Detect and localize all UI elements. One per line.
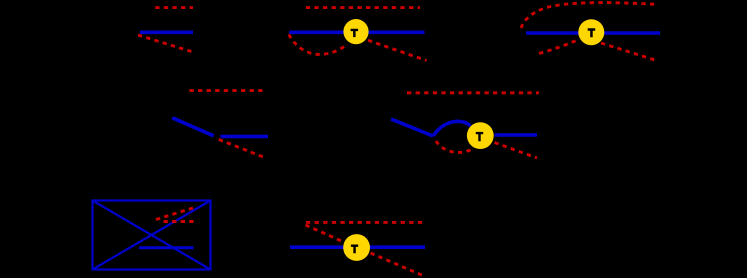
panel 2 red dashed dip curve — [289, 35, 348, 55]
panel 3 blue gene line — [526, 31, 660, 35]
panel 5 blue diagonal segment — [391, 119, 433, 136]
panel 3 transposon circle T — [578, 19, 604, 45]
panel 6 blue gene line inside box — [139, 246, 194, 249]
panel 3 red dashed upper arc — [521, 3, 655, 28]
panel 3 red dashed lower-right diagonal — [601, 43, 657, 61]
panel 5 red dashed dip under circle — [436, 141, 474, 153]
panel 4 blue diagonal segment — [172, 118, 213, 136]
panel 4 red dashed diagonal — [219, 140, 265, 158]
panel 4 blue horizontal segment — [221, 135, 269, 139]
panel 7 blue gene line — [290, 245, 425, 249]
panel 6 red dashed horizontal inside box — [164, 220, 195, 223]
panel 1 red dashed horizontal — [155, 6, 193, 9]
panel 2 red dashed horizontal — [306, 6, 420, 9]
panel 2 blue gene line — [289, 30, 424, 34]
panel 5 blue arc into circle — [433, 121, 471, 136]
panel 2 red dashed diagonal right — [368, 40, 427, 60]
panel 5 red dashed diagonal right — [495, 143, 538, 159]
panel 5 blue horizontal right of circle — [495, 133, 538, 137]
panel 7 red dashed diagonal into circle — [306, 225, 343, 242]
panel 3 T label — [588, 28, 596, 37]
panel 7 red dashed horizontal — [306, 221, 423, 224]
panel 5 transposon circle T — [467, 122, 494, 149]
panel 7 transposon circle T — [343, 234, 370, 261]
panel 3 red dashed lower-left rise — [539, 40, 578, 54]
panel 6 box diagonal 1 — [93, 201, 211, 270]
panel 6 red dashed diagonal inside box — [156, 207, 196, 220]
panel 2 transposon circle T — [343, 19, 368, 44]
panel 1 blue gene line — [140, 30, 193, 34]
panel 6 crossed-out box rectangle — [93, 201, 211, 270]
panel 5 T label — [476, 132, 483, 141]
panel 5 red dashed horizontal — [407, 91, 539, 94]
panel 6 box diagonal 2 — [93, 201, 211, 270]
panel 1 red dashed diagonal — [138, 35, 193, 52]
panel 4 red dashed horizontal — [189, 89, 264, 92]
panel 7 red dashed diagonal from circle — [371, 253, 425, 276]
panel 7 T label — [351, 245, 358, 254]
panel 2 T label — [351, 29, 359, 37]
